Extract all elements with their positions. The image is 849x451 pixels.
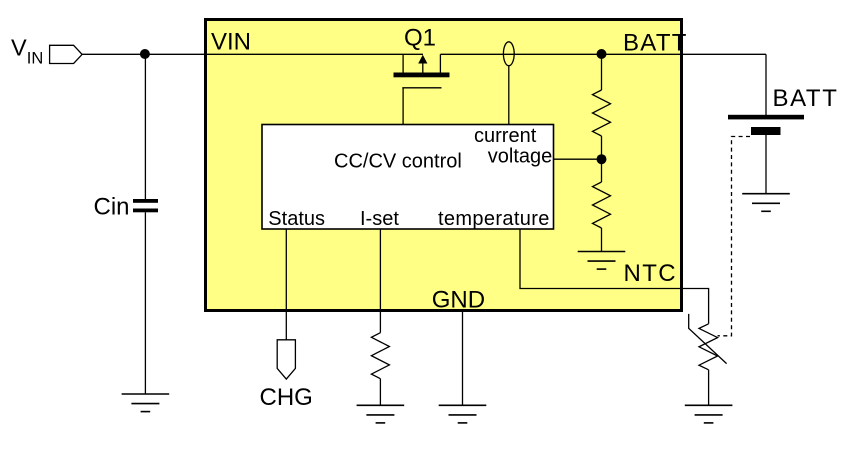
wire junction down to Cin <box>144 54 146 199</box>
wire BATT junction to R1 <box>601 54 603 90</box>
wire Q1 drain to battery corner <box>440 53 766 55</box>
svg-text:BATT: BATT <box>773 85 839 112</box>
wire I-set pin <box>379 229 381 333</box>
wire voltage pin to node <box>554 158 602 160</box>
dashed thermal link battery to thermistor <box>718 137 751 336</box>
Q1 source stub <box>402 54 404 73</box>
control block U1 CC/CV <box>262 125 554 230</box>
resistor R2 (lower divider) <box>593 182 611 228</box>
svg-text:IN: IN <box>27 50 44 68</box>
svg-text:VIN: VIN <box>211 28 251 55</box>
wire Cin to ground <box>144 212 146 394</box>
svg-text:temperature: temperature <box>438 208 550 230</box>
svg-text:Cin: Cin <box>94 193 130 220</box>
node BATT junction <box>597 49 607 59</box>
ground (I-set) <box>357 405 405 423</box>
svg-text:I-set: I-set <box>360 208 399 230</box>
resistor R3 I-set <box>371 333 389 379</box>
svg-text:CHG: CHG <box>260 384 313 411</box>
wire GND pin <box>462 311 464 405</box>
wire R2 to ground <box>601 228 603 252</box>
wire battery to ground <box>765 135 767 194</box>
Q1 gate line <box>402 87 441 89</box>
wire thermistor to ground <box>708 370 710 406</box>
wire R3 to ground <box>379 379 381 406</box>
resistor R1 (upper divider) <box>593 90 611 136</box>
Q1 gate wire to control <box>402 88 404 125</box>
node input junction <box>140 49 150 59</box>
Q1 channel bar <box>394 73 450 78</box>
thermistor mark <box>689 314 727 364</box>
IC block (yellow body) <box>206 20 682 311</box>
output connector CHG <box>277 340 295 379</box>
ground (thermistor) <box>685 405 733 423</box>
current sense ellipse <box>503 42 514 66</box>
wire temperature pin <box>520 229 709 324</box>
ground (divider) <box>578 252 626 270</box>
ground (battery) <box>742 194 790 212</box>
Q1 drain stub <box>439 54 441 73</box>
svg-text:GND: GND <box>432 287 485 314</box>
capacitor C1 Cin plates <box>133 199 158 203</box>
node feedback junction <box>597 154 607 164</box>
wire current sense to control <box>508 66 510 125</box>
svg-text:CC/CV control: CC/CV control <box>334 150 462 172</box>
svg-text:BATT: BATT <box>623 29 688 56</box>
wire battery drop <box>765 54 767 115</box>
svg-text:voltage: voltage <box>488 145 553 167</box>
wire VIN input to Q1 source <box>82 53 423 55</box>
svg-text:V: V <box>11 34 27 60</box>
wire node to R2 <box>601 159 603 182</box>
transistor Q1 (PMOS) <box>394 54 450 124</box>
wire R1 to node <box>601 136 603 159</box>
svg-text:current: current <box>474 125 537 147</box>
Q1 body arrow <box>422 62 424 73</box>
svg-text:NTC: NTC <box>624 260 678 287</box>
battery BT1 plates <box>728 115 804 120</box>
ground (Cin) <box>122 394 170 412</box>
wire Status pin <box>285 229 287 340</box>
svg-text:Status: Status <box>268 208 325 230</box>
input connector VIN <box>50 45 83 63</box>
thermistor RT1 zigzag <box>699 324 718 370</box>
svg-text:Q1: Q1 <box>404 25 436 52</box>
ground (GND) <box>439 405 487 423</box>
